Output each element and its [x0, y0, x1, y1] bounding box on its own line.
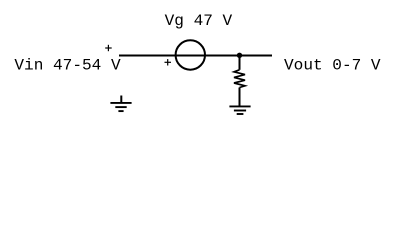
resistor (load) zigzag: [234, 70, 245, 88]
svg-text:Vg 47 V: Vg 47 V: [165, 12, 233, 30]
svg-text:Vout 0-7 V: Vout 0-7 V: [284, 57, 381, 75]
ground (right, below resistor): [229, 106, 250, 114]
wire: stub from junction down to resistor: [239, 56, 241, 70]
wire: resistor to ground: [239, 88, 241, 107]
wire: main horizontal from Vin terminal through source to Vout: [119, 55, 272, 57]
ground (left, Vin return): [110, 96, 131, 112]
plus sign at Vin terminal: [105, 45, 112, 51]
voltage source Vg (circle): [176, 40, 205, 69]
node junction dot: [237, 53, 242, 58]
svg-text:Vin 47-54 V: Vin 47-54 V: [14, 57, 121, 75]
plus sign at Vg source: [165, 59, 172, 65]
